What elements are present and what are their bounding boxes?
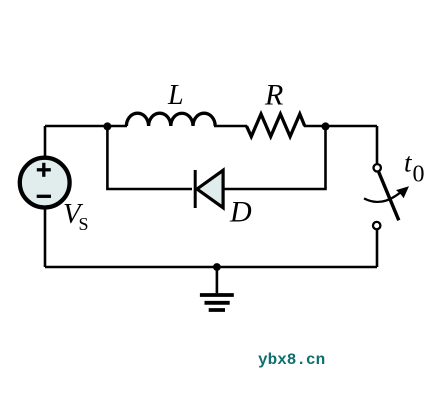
wire: left rail lower (source bottom to bottom rail) — [44, 208, 47, 267]
resistor R zigzag — [247, 114, 305, 137]
svg-text:R: R — [264, 79, 283, 112]
wire: diode anode wire right and up to node B — [225, 126, 326, 189]
ground bar 1 — [200, 293, 234, 297]
wire: right rail lower (switch bottom terminal to bottom rail) — [376, 230, 379, 268]
switch motion arrowhead — [396, 186, 409, 198]
voltage source minus sign — [37, 195, 51, 198]
wire: left rail upper (source top to top rail) — [44, 126, 47, 158]
svg-text:ybx8.cn: ybx8.cn — [258, 351, 325, 369]
ground stub wire — [216, 267, 219, 293]
svg-text:S: S — [79, 214, 89, 234]
node B junction dot — [322, 122, 330, 130]
switch blade — [379, 172, 399, 220]
switch motion arc — [364, 192, 402, 202]
voltage source plus sign — [37, 163, 51, 177]
wire: drop from node A down to diode cathode wire — [107, 126, 192, 189]
wire: bottom rail — [45, 266, 377, 269]
ground bar 3 — [209, 308, 225, 312]
voltage source VS circle — [20, 158, 70, 208]
wire: top rail segment between inductor and resistor — [214, 125, 247, 128]
svg-text:0: 0 — [413, 162, 425, 188]
ground junction dot — [213, 263, 221, 271]
wire: right rail upper (top rail down to switch top terminal) — [376, 126, 379, 164]
switch top terminal — [374, 164, 381, 171]
ground bar 2 — [205, 301, 230, 305]
wire: top rail right segment (resistor to top-right corner) — [304, 125, 377, 128]
inductor L (4 humps) — [126, 113, 215, 126]
svg-text:D: D — [229, 196, 252, 229]
diode D triangle (pointing left) — [197, 170, 223, 207]
node A junction dot — [103, 122, 111, 130]
svg-text:L: L — [167, 80, 184, 111]
wire: top rail left segment (source corner to inductor) — [45, 125, 127, 128]
diode D cathode bar — [194, 170, 197, 208]
switch bottom terminal — [373, 222, 380, 229]
